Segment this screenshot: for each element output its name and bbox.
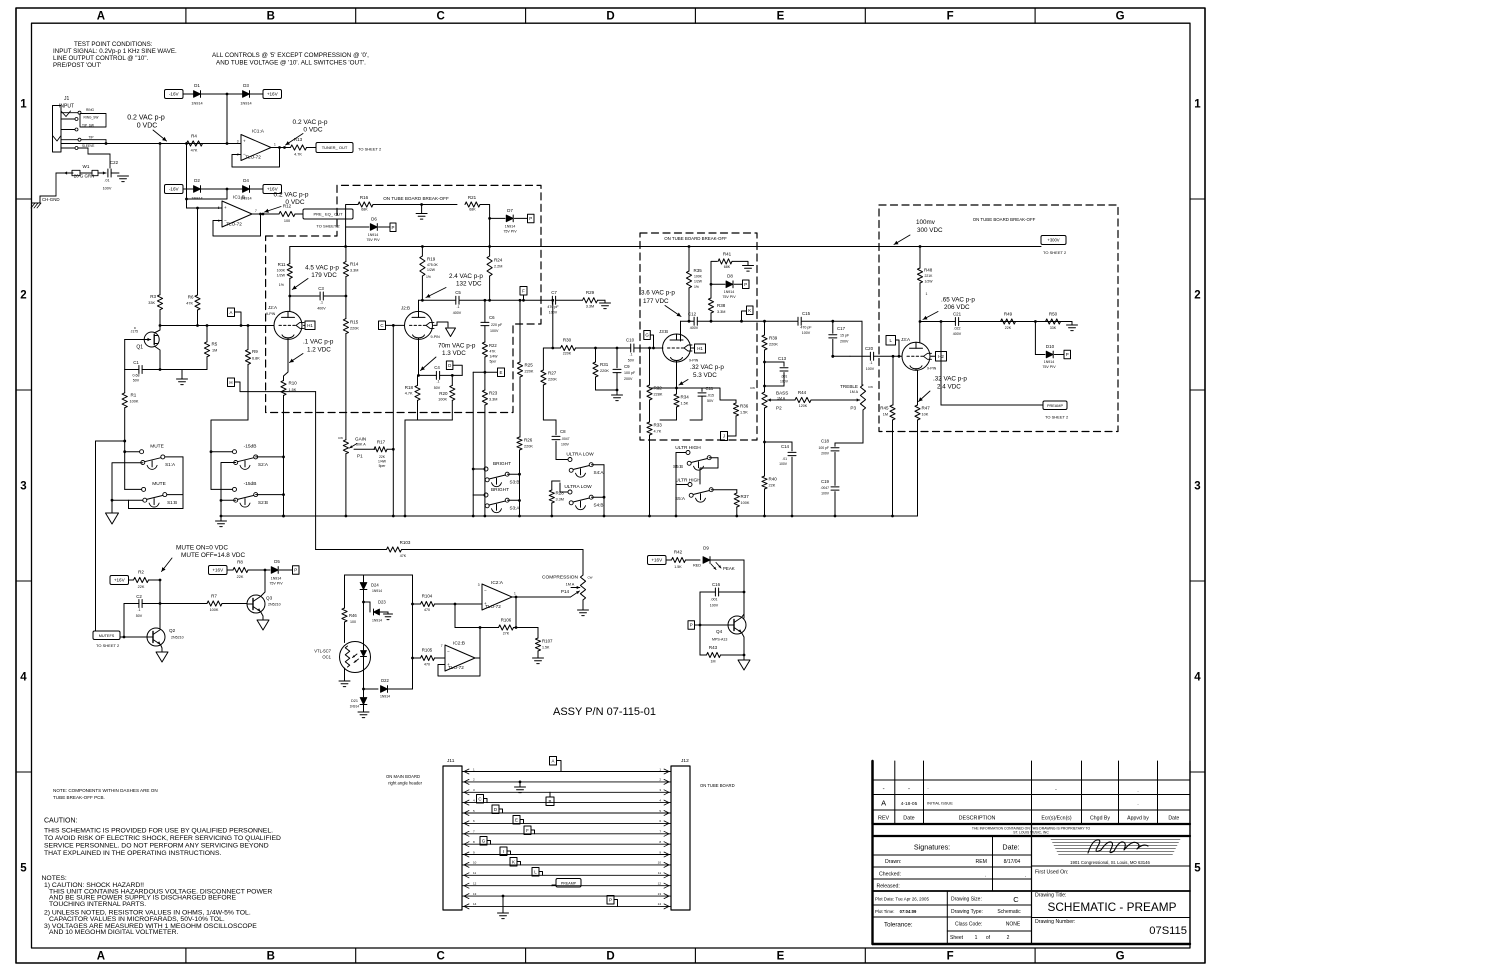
potentiometer P14 COMPRESSION <box>542 550 593 611</box>
svg-text:4.5 VAC p-p: 4.5 VAC p-p <box>305 265 339 272</box>
switch S5:B ULTR HIGH <box>673 445 718 484</box>
wire R18 R20 to gnd rail <box>405 413 452 517</box>
svg-text:D6: D6 <box>371 217 377 222</box>
svg-text:BASS: BASS <box>776 391 788 396</box>
svg-text:C20: C20 <box>865 346 874 351</box>
wire opto top rail <box>316 550 413 576</box>
svg-text:R43: R43 <box>709 645 718 650</box>
pin box P (D7) <box>528 214 535 223</box>
svg-text:H1: H1 <box>697 346 703 351</box>
resistor R15 <box>343 296 359 440</box>
ground triangle S1 <box>106 513 119 524</box>
svg-text:F: F <box>526 828 529 833</box>
svg-text:R14: R14 <box>350 262 359 267</box>
capacitor C19 <box>821 479 840 516</box>
callout 2.4 VAC at J2:B plate <box>426 273 483 298</box>
pin box H <box>228 378 316 392</box>
svg-text:Q2: Q2 <box>169 628 176 633</box>
diode D24 <box>360 575 382 603</box>
resistor R44 <box>765 390 852 408</box>
notes text block <box>42 875 273 936</box>
svg-text:TIP: TIP <box>89 135 94 139</box>
capacitor C8 <box>543 420 569 460</box>
svg-text:right angle header: right angle header <box>388 781 422 786</box>
svg-text:R40: R40 <box>769 477 778 482</box>
svg-text:220K: 220K <box>769 343 778 347</box>
resistor R6 <box>186 295 200 326</box>
svg-text:D3: D3 <box>243 83 249 88</box>
svg-text:D9: D9 <box>703 546 709 551</box>
svg-text:P: P <box>690 623 693 628</box>
svg-text:TLO-72: TLO-72 <box>448 665 464 670</box>
svg-text:1: 1 <box>274 143 276 147</box>
svg-text:400V: 400V <box>953 332 962 336</box>
svg-text:9-PIN: 9-PIN <box>927 367 937 371</box>
svg-text:S4:B: S4:B <box>594 503 604 508</box>
svg-text:C16: C16 <box>712 582 721 587</box>
svg-text:R37: R37 <box>741 494 750 499</box>
svg-text:ALL CONTROLS @ '5' EXCEPT COMP: ALL CONTROLS @ '5' EXCEPT COMPRESSION @ … <box>212 52 369 59</box>
svg-text:Class Code:: Class Code: <box>955 922 982 928</box>
wire C5 row <box>422 299 552 302</box>
svg-text:J3:A: J3:A <box>901 337 910 342</box>
wire IC1:B output <box>261 213 280 215</box>
svg-text:Chgd By: Chgd By <box>1090 816 1110 822</box>
svg-text:P: P <box>1066 352 1069 357</box>
svg-text:REV: REV <box>878 816 889 822</box>
svg-text:TLO-72: TLO-72 <box>226 222 242 227</box>
capacitor C21 <box>953 312 962 337</box>
wire S1 bottom box <box>123 440 183 509</box>
svg-text:G: G <box>1116 11 1125 23</box>
chassis ground CH-GND <box>31 173 64 208</box>
svg-text:1M A: 1M A <box>566 583 575 587</box>
wire Q3 emitter <box>261 612 264 621</box>
svg-text:F: F <box>947 951 954 963</box>
wire R3 feed <box>159 144 161 295</box>
resistor R34 <box>660 388 689 420</box>
svg-text:220 pF: 220 pF <box>491 323 503 327</box>
svg-text:A: A <box>552 758 555 763</box>
resistor R21 <box>465 195 491 247</box>
resistor R42 <box>666 550 700 570</box>
wire S3 column to bus <box>472 495 474 516</box>
svg-text:R104: R104 <box>422 594 433 599</box>
svg-text:100V: 100V <box>866 367 875 371</box>
svg-text:.: . <box>985 873 986 879</box>
svg-text:R16: R16 <box>360 195 369 200</box>
svg-text:15 pF: 15 pF <box>840 334 850 338</box>
svg-text:D4: D4 <box>243 178 249 183</box>
svg-text:P1: P1 <box>357 454 363 459</box>
capacitor C11 <box>690 386 714 420</box>
svg-text:A: A <box>881 799 886 808</box>
net box MUTEFS <box>93 631 120 648</box>
svg-text:CAUTION:: CAUTION: <box>44 818 78 825</box>
transistor Q2 <box>147 628 184 646</box>
svg-text:W1: W1 <box>83 164 90 169</box>
svg-text:C: C <box>380 323 383 328</box>
svg-text:27K: 27K <box>503 632 510 636</box>
capacitor C18 <box>818 439 839 486</box>
resistor R8 <box>227 560 265 580</box>
callout 3.6 VAC at J3:B plate <box>641 290 681 317</box>
svg-text:C4: C4 <box>434 365 440 370</box>
svg-text:J11: J11 <box>447 758 455 764</box>
callout .32 VAC at J3:A cathode <box>919 376 968 402</box>
svg-text:INITIAL ISSUE: INITIAL ISSUE <box>927 801 953 806</box>
svg-text:1.2 VDC: 1.2 VDC <box>307 347 331 354</box>
ground below C9 <box>612 390 623 401</box>
resistor R16 <box>350 195 457 212</box>
svg-text:22K: 22K <box>769 484 776 488</box>
svg-text:220K: 220K <box>524 445 533 449</box>
svg-text:C22: C22 <box>110 160 119 165</box>
wire mute left rail <box>96 440 127 631</box>
jumper W1 <box>64 164 106 179</box>
callout .65 VAC at J3:A plate <box>923 297 975 320</box>
svg-text:R38: R38 <box>717 303 726 308</box>
svg-text:H2: H2 <box>938 354 944 359</box>
pin box P (D10) <box>1064 350 1071 359</box>
svg-text:1M A: 1M A <box>850 390 859 394</box>
svg-text:C12: C12 <box>688 312 697 317</box>
svg-text:1%: 1% <box>694 285 699 289</box>
svg-text:TO SHEET 2: TO SHEET 2 <box>96 643 120 648</box>
resistor R13 <box>291 137 317 157</box>
svg-text:R4: R4 <box>191 134 197 139</box>
svg-text:CH-GND: CH-GND <box>42 197 60 202</box>
svg-text:G: G <box>482 838 486 843</box>
svg-text:C5: C5 <box>455 290 461 295</box>
pin box K (conn row10) <box>510 858 521 867</box>
op-amp IC1:A <box>237 129 276 161</box>
svg-text:S3:A: S3:A <box>510 506 521 511</box>
ground triangle Q4 <box>738 655 750 670</box>
svg-text:Drawing Number:: Drawing Number: <box>1035 919 1075 925</box>
svg-text:C7: C7 <box>551 290 557 295</box>
tube J2:B <box>401 306 440 340</box>
svg-text:0.2 VAC p-p: 0.2 VAC p-p <box>274 192 309 199</box>
svg-text:120K: 120K <box>799 404 808 408</box>
potentiometer P3 TREBLE <box>840 384 873 443</box>
tube J2:A cathode leg <box>284 339 289 380</box>
wire IC1:A output <box>280 147 291 149</box>
svg-text:0.2 VAC p-p: 0.2 VAC p-p <box>127 115 165 122</box>
svg-text:IC1:A: IC1:A <box>252 129 265 135</box>
wire Q1 source row <box>159 368 207 371</box>
svg-text:K: K <box>748 308 751 313</box>
svg-text:.1: .1 <box>870 361 873 365</box>
callout 100mv at B+ end <box>894 219 943 245</box>
svg-text:P: P <box>392 225 395 230</box>
resistor R9 <box>245 326 260 421</box>
svg-text:475.0K: 475.0K <box>427 263 438 267</box>
svg-text:TEST POINT CONDITIONS:: TEST POINT CONDITIONS: <box>74 41 153 48</box>
wire S4 feed <box>556 459 568 461</box>
svg-text:1/2W: 1/2W <box>427 268 436 272</box>
svg-text:Date: Date <box>903 816 914 822</box>
resistor R31 <box>593 348 617 390</box>
svg-text:100V: 100V <box>821 492 830 496</box>
ground after D23 <box>384 612 393 620</box>
svg-text:IC2:A: IC2:A <box>491 580 504 586</box>
tube J3:B <box>659 329 699 363</box>
svg-text:4: 4 <box>20 672 27 684</box>
voltage box +16V (rail 2) <box>263 185 282 194</box>
svg-text:D: D <box>606 11 614 23</box>
pin box P (D8) <box>743 280 750 289</box>
svg-text:6.8K: 6.8K <box>252 357 260 361</box>
svg-text:9-PIN: 9-PIN <box>431 335 441 339</box>
resistor R22 <box>482 342 498 374</box>
svg-text:R103: R103 <box>400 540 411 545</box>
svg-text:13: 13 <box>658 892 662 896</box>
ground triangle Q2 <box>156 652 168 662</box>
svg-text:+300V: +300V <box>1047 238 1059 243</box>
svg-text:R7: R7 <box>211 594 217 599</box>
svg-text:A: A <box>97 951 105 963</box>
title block <box>873 761 1191 944</box>
svg-text:RING_SW: RING_SW <box>84 115 99 119</box>
svg-text:IC2:B: IC2:B <box>453 641 465 647</box>
callout 70m VAC at J2:B cathode <box>421 343 476 371</box>
svg-text:4.7K: 4.7K <box>405 392 413 396</box>
svg-text:Q1: Q1 <box>136 345 143 351</box>
switch S5:A ULTR HIGH <box>675 453 737 517</box>
svg-text:6: 6 <box>218 219 220 223</box>
svg-text:100V: 100V <box>710 604 719 608</box>
svg-text:D23: D23 <box>378 600 386 605</box>
svg-text:470 pF: 470 pF <box>800 326 812 330</box>
ground at Q1 source row <box>177 370 188 385</box>
svg-text:-15dB: -15dB <box>244 481 257 487</box>
svg-text:.1: .1 <box>457 305 460 309</box>
svg-text:3: 3 <box>1194 481 1200 493</box>
note: components within dashes <box>53 788 158 800</box>
svg-text:F: F <box>947 11 954 23</box>
ground below P14 <box>578 610 589 616</box>
svg-text:MUTE: MUTE <box>152 481 166 487</box>
dashed tube-board box (J3:B stage) <box>640 233 757 440</box>
svg-text:ON TUBE BOARD BREAK-OFF: ON TUBE BOARD BREAK-OFF <box>973 217 1036 222</box>
svg-text:R6: R6 <box>188 295 194 300</box>
svg-text:75V PIV: 75V PIV <box>269 582 283 586</box>
svg-text:D: D <box>448 363 451 368</box>
svg-text:I: I <box>503 849 504 854</box>
svg-text:100V: 100V <box>561 443 570 447</box>
diode D23 <box>364 600 389 623</box>
svg-text:+16V: +16V <box>114 578 126 583</box>
resistor R14 <box>343 247 358 297</box>
svg-text:.01: .01 <box>782 457 787 461</box>
resistor R43 <box>700 645 744 664</box>
svg-text:1/4W: 1/4W <box>490 355 499 359</box>
svg-text:ON TUBE BOARD BREAK-OFF: ON TUBE BOARD BREAK-OFF <box>383 196 449 201</box>
svg-text:200V: 200V <box>624 377 633 381</box>
ground after R41 <box>743 266 754 272</box>
svg-text:C13: C13 <box>778 356 787 361</box>
svg-text:Plot Time:: Plot Time: <box>875 909 895 914</box>
svg-text:47K: 47K <box>186 302 193 306</box>
svg-text:REM: REM <box>975 859 987 865</box>
svg-text:1/2W: 1/2W <box>694 280 703 284</box>
svg-text:4-18-05: 4-18-05 <box>901 801 918 807</box>
wire C15 row <box>765 320 863 323</box>
switch S1:A <box>111 444 176 514</box>
note: all controls <box>212 52 369 67</box>
svg-text:C9: C9 <box>624 364 630 369</box>
callout 0.2 VAC at IC1:A output <box>283 119 328 149</box>
capacitor C4 <box>419 365 463 390</box>
svg-text:470: 470 <box>424 608 430 612</box>
svg-text:TO SHEET 2: TO SHEET 2 <box>358 147 382 152</box>
svg-text:220K: 220K <box>525 370 534 374</box>
wire IC1:A feedback <box>232 146 281 167</box>
wire S2 feed <box>210 420 248 489</box>
svg-text:68K: 68K <box>361 208 368 212</box>
svg-text:Drawing Type:: Drawing Type: <box>951 909 983 915</box>
svg-text:14: 14 <box>658 902 662 906</box>
svg-text:228K: 228K <box>654 393 663 397</box>
svg-text:5per: 5per <box>379 464 387 468</box>
svg-text:179 VDC: 179 VDC <box>311 272 337 279</box>
wire S2:B throw <box>256 493 285 496</box>
svg-text:100K: 100K <box>438 398 447 402</box>
svg-text:3: 3 <box>237 140 239 144</box>
svg-text:R13: R13 <box>294 137 303 142</box>
svg-text:MPS-A13: MPS-A13 <box>712 638 727 642</box>
svg-text:PRE_ EQ_ OUT: PRE_ EQ_ OUT <box>313 212 343 217</box>
svg-text:1.3 VDC: 1.3 VDC <box>442 350 466 357</box>
svg-text:.1: .1 <box>630 353 633 357</box>
svg-text:1/4W: 1/4W <box>378 460 387 464</box>
svg-text:1: 1 <box>1194 99 1201 111</box>
svg-text:THIS SCHEMATIC IS PROVIDED FOR: THIS SCHEMATIC IS PROVIDED FOR USE BY QU… <box>44 828 273 835</box>
svg-text:R34: R34 <box>681 395 690 400</box>
svg-text:Sheet: Sheet <box>950 935 964 941</box>
svg-text:Drawing Title:: Drawing Title: <box>1035 893 1066 899</box>
svg-text:0.68: 0.68 <box>133 374 140 378</box>
svg-text:ST. LOUIS MUSIC, INC: ST. LOUIS MUSIC, INC <box>1013 831 1049 835</box>
tube J2:B plate leg <box>419 300 423 311</box>
svg-text:J2:B: J2:B <box>401 306 410 311</box>
svg-text:OC1: OC1 <box>322 655 331 660</box>
svg-text:TO SHEET 2: TO SHEET 2 <box>1045 415 1069 420</box>
capacitor C2 <box>124 594 160 618</box>
pin box C (conn row4) <box>477 795 488 804</box>
svg-text:11: 11 <box>473 871 476 875</box>
resistor R29 <box>583 290 606 309</box>
svg-text:MUTE: MUTE <box>150 444 164 450</box>
diode D3 <box>240 83 251 106</box>
svg-text:A: A <box>97 11 105 23</box>
wire R6 feed <box>197 208 199 295</box>
svg-text:R18: R18 <box>405 385 414 390</box>
svg-text:P14: P14 <box>561 589 570 594</box>
border frame with zone letters and numbers <box>16 8 1205 963</box>
capacitor C9 <box>613 348 636 391</box>
diode D10 <box>1035 322 1064 370</box>
resistor R4 <box>187 134 203 153</box>
svg-text:50V: 50V <box>628 359 635 363</box>
resistor R3 <box>148 294 162 326</box>
svg-text:220K: 220K <box>350 327 359 331</box>
svg-text:R22: R22 <box>489 343 497 348</box>
resistor R38 <box>708 284 725 322</box>
svg-text:+16V: +16V <box>651 558 663 563</box>
svg-text:R27: R27 <box>548 371 557 376</box>
svg-text:3: 3 <box>478 583 480 587</box>
svg-text:7: 7 <box>255 209 257 213</box>
assembly part number <box>553 706 656 718</box>
svg-text:R31: R31 <box>600 362 609 367</box>
svg-text:S5:A: S5:A <box>675 496 686 501</box>
svg-text:400V: 400V <box>317 307 326 311</box>
resistor R10 <box>281 381 297 518</box>
ground after R50 <box>1067 322 1078 331</box>
switch S2:A <box>233 444 269 470</box>
svg-text:ASSY P/N 07-115-01: ASSY P/N 07-115-01 <box>553 706 656 718</box>
svg-text:221K: 221K <box>925 274 934 278</box>
transistor Q3 <box>247 595 281 613</box>
svg-text:70m VAC p-p: 70m VAC p-p <box>438 343 476 350</box>
svg-text:R47: R47 <box>922 406 931 411</box>
svg-text:R36: R36 <box>740 404 749 409</box>
svg-text:S2:B: S2:B <box>258 500 268 505</box>
svg-text:SERVICE PERSONNEL. DO NOT PER: SERVICE PERSONNEL. DO NOT PERFORM ANY SE… <box>44 843 269 850</box>
svg-text:.: . <box>1025 873 1026 879</box>
svg-text:C2: C2 <box>136 594 142 599</box>
resistor R24 <box>487 247 503 302</box>
svg-text:R10: R10 <box>289 381 298 386</box>
resistor R106 <box>455 604 538 636</box>
svg-text:TIP_SW: TIP_SW <box>82 123 94 127</box>
svg-text:Signatures:: Signatures: <box>914 843 950 852</box>
svg-text:100 pF: 100 pF <box>818 446 829 450</box>
svg-text:8/17/04: 8/17/04 <box>1004 859 1021 865</box>
svg-text:of: of <box>986 935 991 941</box>
resistor R36 <box>702 388 749 436</box>
svg-text:R23: R23 <box>489 391 498 396</box>
diode D21 <box>350 689 367 712</box>
svg-text:-16V: -16V <box>169 92 180 97</box>
svg-text:9-PIN: 9-PIN <box>266 312 276 316</box>
svg-text:J2:A: J2:A <box>268 305 277 310</box>
svg-text:R3: R3 <box>150 294 156 299</box>
resistor R7 <box>160 594 247 613</box>
svg-text:D: D <box>494 807 497 812</box>
resistor R1 <box>122 370 139 452</box>
svg-text:R32: R32 <box>654 386 663 391</box>
wire S1:B throw <box>167 494 183 496</box>
pin box H1 (J3:B) <box>695 344 706 353</box>
svg-text:RING: RING <box>86 108 94 112</box>
svg-text:.1: .1 <box>437 380 440 384</box>
op-amp IC2:A <box>478 580 516 610</box>
svg-text:R9: R9 <box>252 349 258 354</box>
wire into IC1:B <box>187 144 223 210</box>
wire bright tap <box>473 372 485 495</box>
ground at C22 <box>118 176 129 182</box>
diode D4 <box>240 178 251 201</box>
svg-text:.65 VAC p-p: .65 VAC p-p <box>941 297 975 304</box>
resistor R20 <box>438 375 455 412</box>
resistor R23 <box>482 372 497 516</box>
svg-text:R20: R20 <box>439 391 448 396</box>
wire Q2 base <box>120 636 147 638</box>
pin box P (conn row14) <box>607 896 618 907</box>
